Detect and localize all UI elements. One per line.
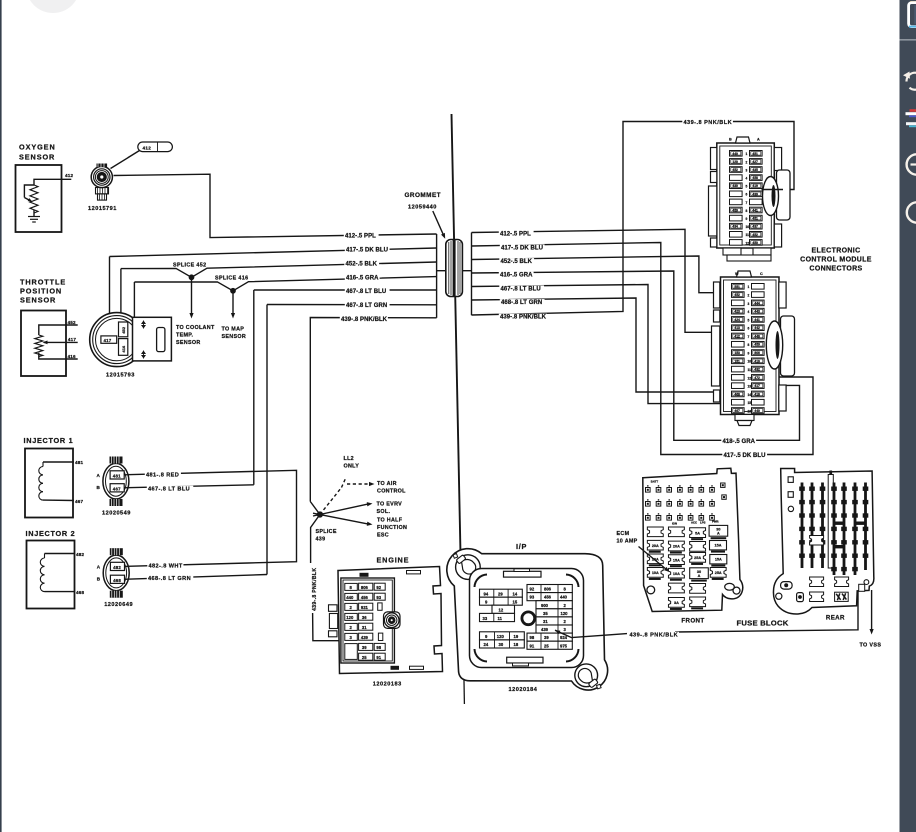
- ECM-A pin row 4: [730, 175, 743, 181]
- svg-text:417: 417: [754, 384, 760, 388]
- ECM-B pin row 15: [732, 399, 745, 405]
- svg-text:410: 410: [754, 359, 760, 363]
- I/P bolt circle bottom-right: [575, 664, 598, 687]
- svg-text:427: 427: [752, 160, 758, 164]
- label 439-.8 PNK/BLK (right): [499, 314, 547, 320]
- svg-text:A: A: [97, 565, 101, 570]
- svg-text:412: 412: [734, 334, 740, 338]
- svg-text:SENSOR: SENSOR: [222, 334, 247, 340]
- wire: TPS 416 stub: [39, 353, 78, 359]
- wire: tag 412 leader line to connector: [111, 151, 140, 169]
- ECM-A pin row 6: [730, 191, 743, 197]
- svg-text:9: 9: [746, 217, 748, 221]
- arrow: variable-resistor wiper on O2 element: [24, 185, 34, 198]
- ECM-B pin row 6: [732, 325, 745, 331]
- engine fuse row 8: 25 91: [359, 653, 373, 660]
- svg-text:20A: 20A: [673, 545, 680, 549]
- I/P bottom handle: [507, 657, 543, 663]
- pin box 467 (injector1 B): [110, 484, 124, 492]
- svg-text:459: 459: [732, 208, 738, 212]
- svg-text:GROMMET: GROMMET: [405, 192, 442, 199]
- label 468-.8 LT GRN (injector): [147, 575, 193, 581]
- svg-text:SENSOR: SENSOR: [19, 153, 55, 162]
- svg-text:5A: 5A: [695, 531, 700, 535]
- splice 416 dot: [231, 289, 235, 293]
- wire: TPS 417 wiper stub with arrow: [44, 341, 78, 343]
- pin box 482 (injector2 A): [110, 562, 124, 570]
- svg-text:5: 5: [746, 185, 748, 189]
- svg-text:452: 452: [732, 168, 738, 172]
- REAR bus bar links: [834, 522, 844, 525]
- wire 439 PNK/BLK left: grommet to splice 439: [310, 318, 436, 502]
- svg-text:417-.5 DK BLU: 417-.5 DK BLU: [501, 245, 543, 251]
- ECM-B pin row 14: [732, 391, 745, 397]
- svg-text:467: 467: [75, 499, 84, 504]
- svg-text:481: 481: [75, 460, 84, 465]
- svg-text:91: 91: [530, 643, 535, 648]
- I/P center ring: [522, 612, 535, 625]
- svg-text:TO MAP: TO MAP: [222, 327, 245, 333]
- svg-text:440: 440: [732, 152, 738, 156]
- svg-text:ONLY: ONLY: [344, 463, 360, 469]
- engine block inner panel: [341, 578, 395, 663]
- svg-text:TO COOLANT: TO COOLANT: [176, 325, 215, 331]
- connector 12020549 (injector 1): [103, 463, 129, 499]
- svg-text:458: 458: [752, 176, 758, 180]
- engine fuse row 7: 39 98: [345, 644, 358, 660]
- svg-text:439-.8 PNK/BLK: 439-.8 PNK/BLK: [500, 315, 547, 321]
- wire: main harness center line: [452, 114, 461, 554]
- svg-text:ELECTRONIC: ELECTRONIC: [812, 248, 861, 255]
- grommet bracket right: [471, 233, 473, 316]
- engine fuse row 3: 2 931: [345, 603, 358, 610]
- svg-text:412: 412: [65, 173, 74, 178]
- splice 452 arrow to coolant temp sensor: [191, 279, 193, 316]
- wire 482 WHT from injector2 connector: [125, 563, 249, 566]
- label 482-.8 WHT: [147, 563, 183, 569]
- I/P pin group lower-left: [480, 632, 525, 640]
- svg-text:931: 931: [361, 605, 369, 610]
- svg-text:456: 456: [361, 595, 369, 600]
- svg-text:13: 13: [748, 385, 752, 389]
- svg-text:4: 4: [748, 310, 750, 314]
- svg-text:A: A: [97, 473, 101, 478]
- wire 468 LT GRN right: grommet to ECM W14: [472, 298, 730, 392]
- svg-text:25A: 25A: [715, 571, 722, 575]
- ECM-B pin row 12: [732, 375, 745, 381]
- svg-text:3: 3: [748, 302, 750, 306]
- wire: injector2 482 stub: [45, 553, 76, 555]
- svg-text:6: 6: [748, 327, 750, 331]
- svg-text:442: 442: [754, 326, 760, 330]
- svg-text:452: 452: [734, 293, 740, 297]
- svg-text:OXYGEN: OXYGEN: [19, 143, 56, 152]
- wire: dashed arrow TO AIR CONTROL: [347, 483, 371, 485]
- svg-text:33: 33: [483, 616, 488, 621]
- svg-text:35: 35: [543, 611, 548, 616]
- engine fuse row 2: 440 456 93: [345, 593, 358, 600]
- wire 412 PPL: oxygen sensor to grommet: [114, 174, 437, 237]
- label 468-.8 LT GRN (right): [500, 299, 545, 305]
- wire: 439 riser diagonal into splice: [310, 502, 320, 515]
- svg-text:ECM: ECM: [617, 531, 630, 537]
- ECM-B pin row 11: [732, 366, 745, 372]
- svg-text:29: 29: [498, 591, 503, 596]
- svg-text:440: 440: [346, 595, 354, 600]
- svg-text:434: 434: [732, 225, 738, 229]
- label 439-.8 PNK/BLK (I/P to fuse block): [628, 632, 679, 638]
- svg-text:120: 120: [346, 615, 354, 620]
- wire: arrow TO EVRV SOL.: [313, 504, 369, 516]
- svg-text:A: A: [698, 574, 701, 578]
- svg-text:452: 452: [752, 233, 758, 237]
- svg-text:THROTTLE: THROTTLE: [20, 278, 66, 287]
- svg-text:TO AIR: TO AIR: [377, 481, 397, 487]
- svg-text:468: 468: [734, 392, 740, 396]
- svg-text:LPS: LPS: [700, 521, 706, 525]
- svg-text:TO HALF: TO HALF: [377, 517, 403, 523]
- REAR thin overlay box: [828, 475, 833, 569]
- pin box 481 (injector1 A): [110, 471, 124, 479]
- svg-text:15A: 15A: [715, 557, 722, 561]
- ECM connector B right rail and latch oval: [779, 282, 786, 308]
- svg-text:LL2: LL2: [344, 456, 354, 462]
- top-left floating button circle: [26, 0, 80, 13]
- arrow GROMMET to body: [433, 211, 444, 236]
- svg-text:SENSOR: SENSOR: [176, 340, 201, 346]
- label 439-.8 PNK/BLK (left): [340, 316, 388, 322]
- svg-text:A: A: [717, 532, 720, 536]
- svg-text:443: 443: [754, 310, 760, 314]
- svg-text:481: 481: [113, 474, 121, 479]
- svg-text:92: 92: [530, 587, 535, 592]
- svg-text:15A: 15A: [715, 543, 722, 547]
- svg-text:452-.5 BLK: 452-.5 BLK: [346, 261, 378, 267]
- svg-text:3A: 3A: [674, 601, 679, 605]
- svg-text:ENGINE: ENGINE: [377, 556, 410, 565]
- grommet bracket left: [436, 234, 438, 318]
- svg-text:439-.8 PNK/BLK: 439-.8 PNK/BLK: [312, 568, 318, 611]
- fuse block FRONT outline: [643, 468, 743, 611]
- svg-text:SPLICE 416: SPLICE 416: [215, 276, 248, 282]
- svg-text:446: 446: [754, 334, 760, 338]
- label 412-.5 PPL (right): [499, 230, 534, 236]
- svg-text:FRONT: FRONT: [681, 617, 704, 624]
- svg-text:806: 806: [754, 351, 760, 355]
- I/P inner frame: [470, 569, 584, 668]
- svg-text:12020184: 12020184: [509, 687, 538, 693]
- label 481-.8 RED: [145, 472, 181, 478]
- tag 412 oval callout: [138, 142, 173, 152]
- svg-text:10 AMP: 10 AMP: [617, 539, 638, 545]
- sidebar zoom-out icon: [907, 154, 916, 174]
- sidebar adjustments icon: [910, 109, 916, 112]
- wire: O2 element top lead with 412 stub: [34, 179, 71, 185]
- label 467-.8 LT BLU (injector): [147, 486, 193, 492]
- svg-text:91: 91: [376, 655, 381, 660]
- svg-text:423: 423: [734, 310, 740, 314]
- svg-text:BATT: BATT: [651, 480, 659, 484]
- svg-text:TO EVRV: TO EVRV: [377, 501, 403, 507]
- splice 452 dot: [189, 275, 193, 279]
- ECM connector B top cap: [737, 271, 752, 277]
- svg-text:PWR: PWR: [712, 520, 719, 524]
- ECM-A pin row 11: [730, 232, 743, 238]
- grommet body 12059440: [446, 240, 463, 297]
- svg-text:459: 459: [754, 343, 760, 347]
- svg-text:437: 437: [752, 225, 758, 229]
- svg-text:14: 14: [748, 393, 752, 397]
- I/P pin group right: [527, 585, 572, 593]
- wire 467 LT BLU right: grommet to ECM W16: [472, 285, 730, 404]
- svg-text:439-.8 PNK/BLK: 439-.8 PNK/BLK: [684, 120, 733, 126]
- ECM-A pin row 12: [730, 240, 743, 246]
- svg-text:2: 2: [746, 160, 748, 164]
- svg-text:417-.5 DK BLU: 417-.5 DK BLU: [724, 453, 766, 459]
- svg-text:151: 151: [734, 359, 740, 363]
- svg-text:16: 16: [748, 409, 752, 413]
- ECM connector A bottom caps: [723, 248, 741, 255]
- ECM-B pin row 2: [732, 292, 745, 298]
- svg-text:439: 439: [361, 635, 369, 640]
- svg-text:468: 468: [113, 578, 121, 583]
- engine fuse row 6: 3 439: [345, 633, 358, 640]
- svg-text:C: C: [760, 272, 763, 276]
- wire 439 PNK/BLK right: grommet up-over to ECM pin 439: [472, 122, 795, 316]
- svg-text:IGN: IGN: [672, 522, 677, 526]
- resistor: TPS potentiometer element: [35, 335, 43, 357]
- svg-text:416-.5 GRA: 416-.5 GRA: [500, 273, 533, 279]
- FRONT mounting circles: [647, 586, 655, 594]
- svg-text:412-.5 PPL: 412-.5 PPL: [345, 233, 376, 239]
- ECM-A pin row 7: [730, 199, 743, 205]
- svg-text:98: 98: [530, 635, 535, 640]
- svg-text:31: 31: [362, 625, 367, 630]
- svg-text:ACC: ACC: [691, 521, 697, 525]
- svg-text:120: 120: [732, 160, 738, 164]
- ECM connector A top cap: [736, 137, 751, 143]
- svg-text:25A: 25A: [694, 556, 701, 560]
- engine fuse row 1: 8 806 92: [345, 583, 358, 590]
- wire 412 PPL right: grommet to ECM W7: [472, 229, 730, 332]
- svg-text:417-.5 DK BLU: 417-.5 DK BLU: [346, 247, 388, 253]
- svg-text:468: 468: [76, 590, 85, 595]
- label 416-.5 GRA (left): [345, 274, 380, 280]
- splice 416 arrow to map sensor: [232, 293, 234, 316]
- svg-text:806: 806: [361, 585, 369, 590]
- I/P pin group upper-left: [480, 589, 523, 597]
- svg-text:424: 424: [734, 318, 740, 322]
- ECM-A pin row 1: [730, 151, 743, 157]
- svg-text:806: 806: [544, 587, 552, 592]
- sidebar zoom-in icon: [907, 202, 916, 222]
- svg-text:9: 9: [748, 351, 750, 355]
- ECM-B pin row 10: [732, 358, 745, 364]
- label 467-.8 LT GRN (left): [345, 302, 390, 308]
- svg-text:412: 412: [143, 145, 152, 150]
- label 416-.5 GRA (right): [499, 272, 534, 278]
- engine fuse row 5: 2 31: [345, 623, 358, 630]
- ECM-B pin row 3: [732, 300, 745, 306]
- ECM-B pin row 7: [732, 333, 745, 339]
- ECM-B pin row 1: [732, 284, 745, 290]
- svg-text:15A: 15A: [673, 558, 680, 562]
- svg-text:W: W: [735, 272, 739, 276]
- engine block mounting tabs left: [329, 605, 338, 612]
- ECM connector A left rail: [711, 148, 717, 170]
- svg-text:94: 94: [484, 591, 489, 596]
- engine block boss circle: [384, 612, 401, 629]
- svg-text:551: 551: [734, 285, 740, 289]
- svg-text:INJECTOR 1: INJECTOR 1: [24, 436, 74, 445]
- svg-text:468-.8 LT GRN: 468-.8 LT GRN: [148, 576, 191, 582]
- svg-text:93: 93: [376, 595, 381, 600]
- left edge window border: [0, 0, 2, 832]
- svg-text:120: 120: [497, 634, 505, 639]
- svg-text:7: 7: [748, 335, 750, 339]
- svg-text:14: 14: [513, 591, 518, 596]
- label 412-.5 PPL (left): [344, 232, 379, 238]
- wire: TO VSS drop arrow: [871, 590, 873, 631]
- svg-text:441: 441: [754, 318, 760, 322]
- svg-text:439-.8 PNK/BLK: 439-.8 PNK/BLK: [341, 317, 388, 323]
- svg-text:418-.5 GRA: 418-.5 GRA: [723, 439, 756, 445]
- svg-text:18: 18: [514, 642, 519, 647]
- svg-text:467: 467: [734, 409, 740, 413]
- svg-text:6: 6: [746, 193, 748, 197]
- svg-text:31: 31: [543, 619, 548, 624]
- wire: injector1 481 stub: [43, 461, 74, 463]
- wire 416 GRA right: grommet loop to ECM C14: [472, 271, 800, 440]
- svg-text:1: 1: [748, 285, 750, 289]
- wire: splice 439 to engine block vertical: [311, 515, 320, 565]
- svg-text:ESC: ESC: [377, 532, 389, 538]
- ECM connector B bottom cap: [735, 415, 754, 421]
- svg-text:440: 440: [560, 595, 568, 600]
- svg-text:39: 39: [362, 645, 367, 650]
- REAR vertical bus bars: [801, 483, 804, 569]
- svg-text:10A: 10A: [652, 571, 659, 575]
- svg-text:432: 432: [754, 368, 760, 372]
- svg-text:INJECTOR 2: INJECTOR 2: [26, 529, 76, 538]
- svg-text:441: 441: [752, 208, 758, 212]
- FRONT small terminal grid: [646, 488, 651, 493]
- connector 12015791 (oxygen sensor pigtail): [91, 166, 112, 187]
- svg-text:467-.8 LT BLU: 467-.8 LT BLU: [346, 289, 386, 295]
- svg-text:153: 153: [734, 351, 740, 355]
- svg-text:472: 472: [754, 376, 760, 380]
- svg-text:10A: 10A: [673, 572, 680, 576]
- ECM-B pin row 16: [732, 408, 745, 414]
- svg-text:TO VSS: TO VSS: [860, 643, 882, 649]
- wire 467 LT BLU: injector1 to grommet: [253, 290, 255, 485]
- splice 439 dot: [318, 512, 323, 517]
- svg-text:CONTROL MODULE: CONTROL MODULE: [800, 257, 872, 264]
- wire 468 LT GRN: injector2 to grommet: [266, 305, 268, 575]
- svg-text:482: 482: [113, 565, 121, 570]
- svg-text:B: B: [97, 485, 101, 490]
- svg-text:12059440: 12059440: [408, 205, 437, 211]
- ECM-B pin row 9: [732, 350, 745, 356]
- ECM-A pin row 3: [730, 167, 743, 173]
- svg-text:98: 98: [376, 645, 381, 650]
- svg-text:B: B: [97, 577, 101, 582]
- fuse block REAR outline: [773, 469, 873, 615]
- svg-text:CONTROL: CONTROL: [377, 488, 406, 494]
- ECM connector B (lower) body: [721, 277, 780, 415]
- svg-text:19: 19: [514, 634, 519, 639]
- svg-text:482-.8 WHT: 482-.8 WHT: [149, 563, 183, 569]
- svg-text:12015793: 12015793: [106, 373, 135, 379]
- ECM-B pin row 8: [732, 341, 745, 347]
- svg-text:8: 8: [746, 209, 748, 213]
- svg-text:417: 417: [68, 337, 77, 342]
- REAR bottom-left details: [781, 582, 793, 590]
- svg-text:12: 12: [499, 608, 504, 613]
- REAR lower white fuses: [810, 535, 824, 545]
- ECM-A pin row 9: [730, 215, 743, 221]
- svg-text:I/P: I/P: [516, 542, 527, 551]
- right sidebar toolbar: [900, 0, 916, 832]
- svg-text:481-.8 RED: 481-.8 RED: [146, 472, 179, 478]
- wire 467 LT BLU from injector1 connector: [124, 485, 254, 488]
- svg-text:25: 25: [544, 643, 549, 648]
- wire: injector1 467 stub: [43, 499, 74, 501]
- ECM connector A (upper) body: [717, 143, 775, 248]
- svg-text:444: 444: [754, 301, 760, 305]
- svg-text:439: 439: [316, 536, 326, 542]
- label 417-.5 DK BLU (left): [345, 246, 390, 252]
- svg-text:416-.5 GRA: 416-.5 GRA: [346, 275, 379, 281]
- I/P top handle: [504, 571, 542, 577]
- svg-text:10: 10: [746, 225, 750, 229]
- svg-text:452: 452: [121, 326, 126, 334]
- ECM-B pin row 5: [732, 317, 745, 323]
- wire: TPS 452 stub: [39, 325, 78, 335]
- svg-text:468-.8 LT GRN: 468-.8 LT GRN: [501, 300, 542, 306]
- wire 417 DK BLU right: grommet loop to ECM C13: [472, 243, 814, 455]
- connector 12015793 (TPS pigtail) outer circles: [90, 313, 144, 367]
- svg-text:15: 15: [748, 401, 752, 405]
- svg-text:11: 11: [746, 233, 750, 237]
- label 467-.8 LT BLU (right): [499, 285, 544, 291]
- svg-text:SOL.: SOL.: [377, 509, 391, 515]
- sidebar divider: [900, 39, 916, 41]
- svg-text:CONNECTORS: CONNECTORS: [809, 266, 862, 273]
- sidebar top icon (extension button): [910, 1, 916, 3]
- svg-text:452: 452: [68, 320, 77, 325]
- svg-text:451: 451: [752, 217, 758, 221]
- inductor: injector 1 coil: [42, 462, 44, 467]
- svg-text:975: 975: [560, 643, 568, 648]
- TPS pin box 417: [101, 336, 117, 343]
- label 439-.8 PNK/BLK vertical (engine feed): [308, 563, 318, 613]
- ECM connector B left rail: [714, 282, 720, 308]
- svg-text:439: 439: [541, 627, 549, 632]
- svg-text:SENSOR: SENSOR: [20, 296, 56, 305]
- svg-text:30: 30: [499, 642, 504, 647]
- svg-text:24: 24: [484, 642, 489, 647]
- svg-text:12020183: 12020183: [373, 681, 402, 687]
- connector 12020549 (injector 2): [103, 555, 129, 591]
- label 418-.5 GRA (bottom loop): [721, 438, 756, 444]
- svg-text:416: 416: [121, 345, 126, 353]
- svg-text:417: 417: [104, 338, 112, 343]
- svg-text:15: 15: [513, 599, 518, 604]
- svg-text:419: 419: [752, 184, 758, 188]
- wire: splice dashed to LL2 ONLY: [320, 488, 342, 515]
- svg-text:93: 93: [530, 595, 535, 600]
